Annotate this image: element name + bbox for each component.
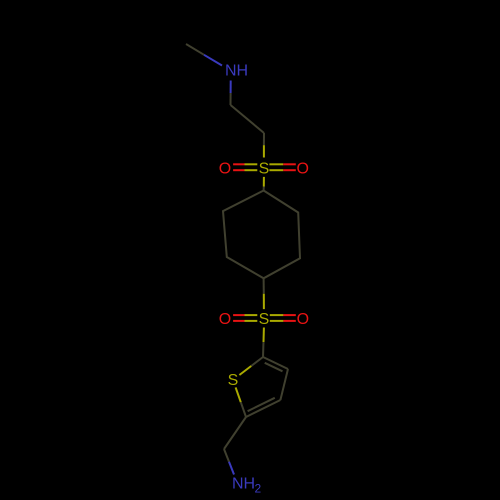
bond CH2b-S1 (sulfur half) bbox=[263, 145, 265, 157]
double bond S2=O bottom-left lower line (oxygen half) bbox=[233, 320, 244, 322]
bond CH3-N1 (carbon half) bbox=[186, 44, 204, 55]
thiophene bond S3-C5 (sulfur half) bbox=[236, 387, 241, 402]
double bond S1=O top-right lower line (sulfur half) bbox=[269, 169, 283, 171]
bond CH2a-CH2b bbox=[231, 105, 265, 133]
double bond S1=O top-right upper line (sulfur half) bbox=[269, 163, 283, 165]
double bond S1=O top-left upper line (oxygen half) bbox=[233, 163, 244, 165]
double bond S2=O bottom-right lower line (sulfur half) bbox=[270, 320, 284, 322]
double bond S2=O bottom-left lower line (sulfur half) bbox=[245, 320, 258, 322]
svg-text:O: O bbox=[297, 311, 309, 328]
bond S1-ringC1 (sulfur half) bbox=[263, 177, 265, 187]
bond N1-CH2a (carbon half) bbox=[230, 93, 232, 105]
double bond S2=O bottom-right upper line (sulfur half) bbox=[270, 314, 284, 316]
bond CH2-N2 (carbon half) bbox=[224, 449, 229, 462]
thiophene double bond C2=C3 inner line bbox=[265, 363, 283, 372]
double bond S1=O top-left lower line (sulfur half) bbox=[245, 169, 258, 171]
svg-text:S: S bbox=[259, 160, 270, 177]
thiophene double bond C4=C5 inner line bbox=[248, 398, 275, 411]
thiophene bond C2-C3 bbox=[263, 357, 288, 369]
thiophene bond C3-C4 bbox=[280, 369, 288, 400]
thiophene bond C4-C5 bbox=[246, 400, 280, 417]
svg-text:O: O bbox=[219, 311, 231, 328]
bond CH2b-S1 (carbon half) bbox=[263, 133, 265, 145]
double bond S1=O top-left lower line (oxygen half) bbox=[233, 169, 244, 171]
double bond S1=O top-right lower line (oxygen half) bbox=[283, 169, 296, 171]
bond CH2-N2 (nitrogen half) bbox=[229, 462, 234, 475]
thiophene bond C2-S3 (sulfur half) bbox=[239, 366, 251, 375]
bond CH3-N1 (nitrogen half) bbox=[204, 55, 222, 66]
bond S1-ringC1 (carbon half) bbox=[263, 187, 265, 191]
bond ringC4-S2 (sulfur half) bbox=[263, 294, 265, 309]
bond N1-CH2a (nitrogen half) bbox=[230, 81, 232, 94]
svg-text:O: O bbox=[219, 160, 231, 177]
double bond S2=O bottom-left upper line (oxygen half) bbox=[233, 314, 244, 316]
bond S2-thiopheneC2 (sulfur half) bbox=[263, 328, 265, 343]
bond ringC4-S2 (carbon half) bbox=[263, 278, 265, 293]
svg-text:O: O bbox=[296, 160, 308, 177]
svg-text:S: S bbox=[228, 372, 239, 389]
cyclohexane ring bbox=[223, 191, 300, 279]
thiophene bond S3-C5 (carbon half) bbox=[241, 402, 246, 417]
double bond S2=O bottom-left upper line (sulfur half) bbox=[245, 314, 258, 316]
double bond S2=O bottom-right upper line (oxygen half) bbox=[283, 314, 295, 316]
bond S2-thiopheneC2 (carbon half) bbox=[262, 342, 265, 357]
double bond S1=O top-left upper line (sulfur half) bbox=[245, 163, 258, 165]
svg-text:NH: NH bbox=[225, 63, 248, 80]
svg-text:NH: NH bbox=[232, 475, 255, 492]
bond C5-CH2 bbox=[224, 417, 246, 449]
svg-text:S: S bbox=[259, 311, 270, 328]
double bond S2=O bottom-right lower line (oxygen half) bbox=[283, 320, 295, 322]
thiophene bond C2-S3 (carbon half) bbox=[251, 357, 263, 366]
svg-text:2: 2 bbox=[255, 482, 262, 496]
double bond S1=O top-right upper line (oxygen half) bbox=[283, 163, 296, 165]
